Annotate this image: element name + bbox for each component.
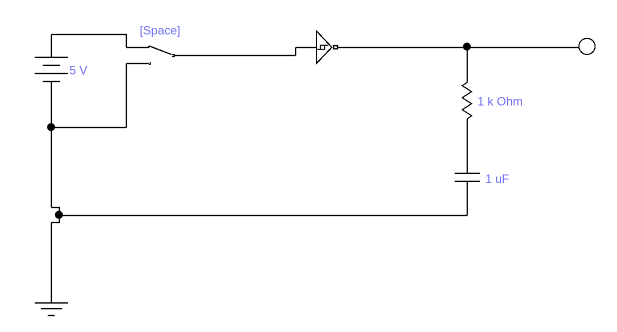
wire into inverter input [296,47,317,49]
capacitor C1 bottom plate [455,180,480,182]
wire bottom rail to capacitor [59,215,467,217]
inverter U1 schmitt hysteresis glyph lower polyline [316,45,324,49]
wire inverter output rail [338,47,579,49]
ground symbol line 2 [41,308,62,310]
capacitor C1 top plate [455,172,480,174]
battery B1 plate short 2 [43,81,60,83]
wire resistor to capacitor [466,119,468,174]
battery B1 plate long 2 [35,73,68,75]
inverter U1 triangle [316,31,331,64]
switch SW1 upper throw post tick [148,46,150,48]
wire switch column down [125,34,127,48]
battery B1 bottom lead down to ground rail jog [50,82,52,208]
wire top from battery plus to switch column [51,34,126,36]
inverter U1 inversion bubble [334,46,338,49]
svg-text:5 V: 5 V [69,63,87,77]
wire jog right above bottom junction [51,208,59,216]
svg-text:[Space]: [Space] [140,24,181,38]
switch SW1 blade [149,46,171,54]
node output rail junction dot [463,43,471,51]
capacitor C1 bottom lead [466,182,468,216]
wire step up at inverter input [295,48,297,56]
wire junction down to resistor [466,48,468,83]
battery B1 top lead [50,35,52,58]
node battery minus junction dot [47,123,55,131]
switch SW1 common post hook [172,55,174,57]
svg-text:1 uF: 1 uF [485,172,509,186]
wire mid rail to battery minus junction [51,127,126,129]
wire jog below bottom junction to ground lead [51,216,59,223]
ground lead wire [50,223,52,303]
node bottom rail junction dot [55,211,63,219]
battery B1 plate short 1 [43,64,60,66]
output terminal circle [579,38,595,54]
switch SW1 lower throw post tick [149,62,151,65]
wire switch lower throw [126,63,148,65]
battery B1 plate long 1 [35,56,68,58]
resistor R1 zigzag [462,82,471,119]
wire from switch common to inverter input step [175,55,296,57]
wire lower throw column down [125,64,127,128]
ground symbol line 3 [48,315,55,317]
wire to switch upper throw post [126,47,148,49]
svg-text:1 k Ohm: 1 k Ohm [477,95,522,109]
ground symbol line 1 [35,302,68,304]
inverter U1 schmitt hysteresis glyph upper polyline [320,45,328,49]
